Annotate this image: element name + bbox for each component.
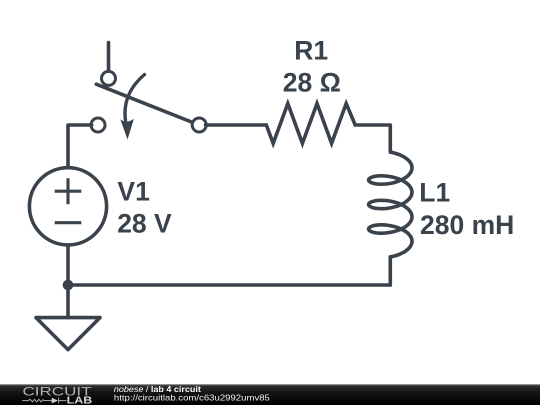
wire from V1 bottom to junction bbox=[66, 246, 70, 285]
svg-text:V1: V1 bbox=[117, 177, 149, 207]
switch arrow head bbox=[120, 119, 134, 140]
plus sign bbox=[55, 178, 82, 204]
switch right terminal circle bbox=[192, 118, 206, 132]
svg-text:R1: R1 bbox=[294, 35, 328, 65]
switch blade bbox=[96, 84, 193, 122]
switch left terminal circle bbox=[91, 118, 105, 132]
svg-text:280 mH: 280 mH bbox=[420, 210, 514, 240]
minus sign bbox=[55, 221, 82, 224]
switch motion arrow arc bbox=[125, 75, 145, 122]
wire (top stub of switch) bbox=[107, 43, 111, 72]
bottom rail wire bbox=[68, 283, 390, 287]
wire from resistor to top-right corner and down to inductor bbox=[355, 125, 390, 152]
resistor R1 bbox=[266, 104, 355, 144]
wire from inductor bottom to bottom rail bbox=[388, 257, 392, 285]
svg-text:28 V: 28 V bbox=[117, 208, 172, 238]
inductor L1 coil bbox=[369, 152, 412, 257]
logo resistor squiggle + diode bbox=[22, 398, 66, 404]
switch SW1 bbox=[91, 43, 206, 140]
ground symbol bbox=[36, 318, 100, 350]
logo diode triangle bbox=[52, 398, 58, 404]
voltage source V1 bbox=[29, 168, 106, 245]
svg-text:L1: L1 bbox=[419, 178, 450, 208]
wire junction to ground bbox=[66, 285, 70, 318]
svg-text:http://circuitlab.com/c63u2992: http://circuitlab.com/c63u2992umv85 bbox=[114, 392, 270, 402]
wire from switch right terminal to resistor bbox=[206, 123, 267, 127]
junction node dot bbox=[63, 280, 74, 291]
svg-text:LAB: LAB bbox=[67, 396, 93, 405]
switch top terminal circle bbox=[102, 71, 116, 85]
svg-text:28 Ω: 28 Ω bbox=[283, 67, 341, 97]
wire from switch left terminal to V1 top bbox=[68, 125, 92, 167]
